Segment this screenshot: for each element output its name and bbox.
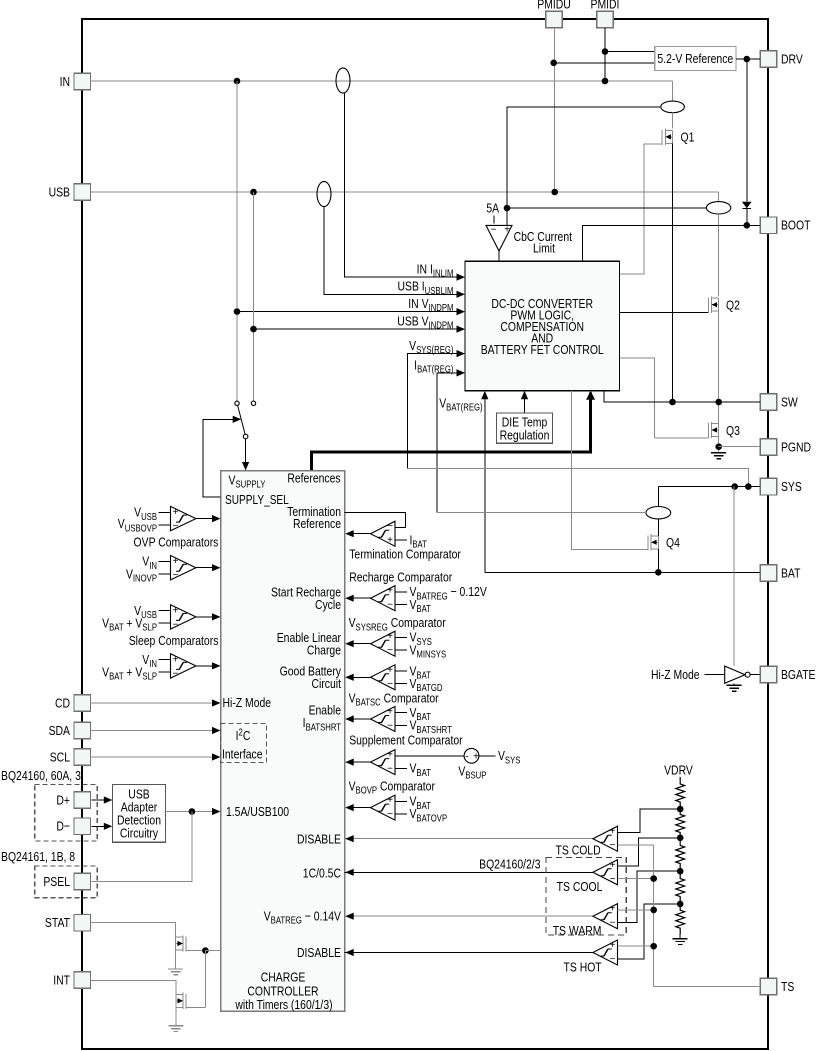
node SW-Q2Q3 junction [715, 399, 722, 406]
wire IN rail to E3 [672, 81, 674, 101]
wire USB VINDPM row [254, 328, 457, 330]
wire inverter input [704, 674, 724, 676]
wire IN rail [90, 80, 673, 82]
resistor R4 [676, 871, 685, 904]
dashed I2C interface box [221, 724, 267, 763]
wire SYS sense [408, 469, 749, 487]
svg-text:BATTERY FET CONTROL: BATTERY FET CONTROL [481, 342, 604, 358]
wire tap3 to TS WARM - [618, 871, 681, 922]
inverter U2 [725, 666, 745, 683]
block USB Adapter Detection [113, 784, 166, 842]
svg-text:DISABLE: DISABLE [297, 945, 341, 961]
wire DIE temp to DC-DC [524, 392, 526, 413]
transistor Q3 [707, 423, 709, 438]
svg-text:Termination Comparator: Termination Comparator [349, 546, 461, 562]
node SYS sense junction [745, 483, 752, 490]
ground under M2 [168, 1025, 183, 1027]
svg-text:+: + [610, 904, 616, 915]
wire M2 gate [186, 1007, 205, 1009]
current sense E2 on USB rail [317, 181, 331, 206]
svg-text:USB IUSBLIM: USB IUSBLIM [397, 278, 453, 296]
svg-text:−: − [610, 840, 616, 851]
arrow into DC-DC IN IINLIM [457, 274, 466, 281]
wire gate junction down [204, 951, 206, 1008]
wire comparator U4 output [196, 665, 213, 667]
node SW-Q1 junction [669, 399, 676, 406]
svg-text:+: + [610, 860, 616, 871]
svg-text:BAT: BAT [781, 565, 800, 581]
comparator supplement comparator [371, 750, 396, 775]
node DRV junction [744, 56, 751, 63]
wire references bus [312, 393, 591, 471]
svg-text:VBOVP Comparator: VBOVP Comparator [349, 778, 435, 796]
wire tap1 to TS COLD + [618, 809, 681, 832]
pin INT [74, 972, 91, 989]
svg-text:D+: D+ [56, 792, 70, 808]
comparator CbC current limit [486, 225, 512, 251]
wire TS COOL - stub [618, 878, 654, 880]
svg-text:Hi-Z Mode: Hi-Z Mode [651, 667, 700, 683]
wire TS WARM + stub [618, 909, 654, 911]
svg-text:Recharge Comparator: Recharge Comparator [349, 569, 452, 585]
svg-text:SYS: SYS [781, 479, 802, 495]
wire SYS to inverter [733, 487, 735, 666]
svg-text:+: + [173, 605, 179, 616]
svg-text:+: + [387, 665, 393, 676]
wire DRV down to diode [746, 59, 748, 202]
source VBSUP [464, 748, 479, 763]
wire BOOT rail [583, 225, 761, 261]
dashed box PSEL [35, 866, 97, 898]
comparator TS WARM [593, 904, 618, 929]
svg-text:−: − [387, 645, 393, 656]
svg-text:VBAT: VBAT [409, 760, 431, 778]
wire VBATSC comparator input stub [395, 712, 407, 714]
wire DISABLE2 row [345, 952, 593, 954]
wire Q1 source down to SW [672, 143, 674, 402]
comparator good battery comparator [371, 665, 396, 690]
wire supplement comparator output [353, 761, 370, 763]
svg-text:−: − [173, 570, 179, 581]
comparator TS HOT [593, 940, 618, 965]
svg-text:+: + [173, 556, 179, 567]
wire supplement to VBSUP source [395, 755, 464, 757]
comparator U2 left [171, 556, 196, 580]
pin PMIDI [597, 11, 614, 28]
svg-text:+: + [173, 654, 179, 665]
svg-text:Circuitry: Circuitry [120, 825, 158, 841]
wire VSYSREG row [408, 354, 457, 469]
node USB-switch junction [250, 189, 257, 196]
svg-text:+: + [387, 535, 393, 546]
pin PGND [760, 439, 777, 456]
wire comparator U2 inputs [159, 560, 171, 562]
pin BGATE [760, 666, 777, 683]
node SYS-inverter tap [731, 483, 738, 490]
svg-text:SDA: SDA [49, 723, 70, 739]
comparator VBOVP comparator [371, 795, 396, 820]
pin PSEL [74, 873, 91, 890]
pin CD [74, 695, 91, 712]
comparator U4 left [171, 654, 196, 678]
ground under Q3 [711, 452, 726, 454]
pin BAT [760, 565, 777, 582]
svg-text:1C/0.5C: 1C/0.5C [303, 865, 342, 881]
wire PMIDI down to IN rail [604, 28, 606, 81]
transistor M2 INT [185, 994, 187, 1009]
svg-text:Q4: Q4 [666, 535, 680, 551]
wire VSYSREG comparator input stub [395, 636, 407, 638]
wire good battery comparator output [353, 676, 370, 678]
node USB-PMIDU junction [551, 189, 558, 196]
comparator termination comparator [371, 521, 396, 546]
pin SW [760, 394, 777, 411]
comparator recharge comparator [371, 586, 396, 611]
svg-text:IN: IN [60, 74, 70, 90]
svg-text:+: + [387, 707, 393, 718]
svg-text:VBSUP: VBSUP [458, 763, 486, 781]
svg-text:D−: D− [56, 818, 70, 834]
svg-text:−: − [387, 809, 393, 820]
wire VBATSC comparator input stub [395, 724, 407, 726]
svg-text:DRV: DRV [781, 51, 803, 67]
wire detector output [165, 811, 213, 813]
wire tap2 to TS COOL + [618, 838, 681, 866]
svg-text:BQ24161, 1B, 8: BQ24161, 1B, 8 [1, 849, 75, 865]
ground under M1 [168, 968, 183, 970]
wire M1 gate [186, 950, 205, 952]
pin SYS [760, 478, 777, 495]
svg-text:−: − [387, 721, 393, 732]
wire Q2 source to SW [718, 311, 720, 402]
svg-text:−: − [173, 668, 179, 679]
svg-text:−: − [610, 954, 616, 965]
wire supplement comparator input stub [395, 767, 407, 769]
wire DISABLE row [345, 838, 593, 840]
current sense E5 [646, 507, 671, 519]
svg-text:PSEL: PSEL [43, 874, 70, 890]
comparator U1 left [171, 506, 196, 530]
svg-text:SW: SW [781, 394, 798, 410]
wire VBSUP to VSYS [479, 755, 496, 757]
svg-text:DISABLE: DISABLE [297, 831, 341, 847]
svg-text:References: References [287, 470, 340, 486]
dashed box D+/D- [35, 784, 97, 841]
node PMIDI-5.2V tap [602, 48, 609, 55]
block SUPPLY_SEL / CHARGE CONTROLLER [221, 471, 345, 1012]
svg-text:−: − [387, 521, 393, 532]
svg-text:+: + [387, 795, 393, 806]
svg-text:−: − [387, 679, 393, 690]
svg-text:+: + [173, 507, 179, 518]
node TS net COOL [650, 875, 657, 882]
node detector-PSEL junction [189, 808, 196, 815]
svg-text:PGND: PGND [781, 439, 811, 455]
wire E4 to Q2 drain [718, 214, 720, 297]
wire D- to detector [91, 825, 104, 827]
svg-text:VBATSC Comparator: VBATSC Comparator [349, 690, 439, 708]
arrow into DC-DC USB VINDPM [457, 326, 466, 333]
wire comparator U3 inputs [159, 610, 171, 612]
pin IN [74, 73, 91, 90]
pin SCL [74, 749, 91, 766]
dashed box BQ24160/2/3 [546, 858, 626, 935]
node 5A junction [504, 205, 511, 212]
wire 5A row to E4 [507, 207, 707, 209]
wire E5 sense tap IBAT [437, 512, 646, 514]
wire E5 to Q4 drain [657, 519, 659, 536]
svg-text:+: + [473, 751, 479, 762]
resistor R5 [676, 904, 685, 935]
node gate junction [202, 947, 209, 954]
wire VBATSC comparator output [353, 718, 370, 720]
wire VSYSREG comparator output [353, 643, 370, 645]
svg-text:TS HOT: TS HOT [563, 959, 601, 975]
ground under inverter [733, 683, 735, 685]
svg-text:USB VINDPM: USB VINDPM [397, 313, 453, 331]
svg-text:Supplement Comparator: Supplement Comparator [349, 732, 462, 748]
wire switch control [203, 419, 233, 497]
wire E2 tap down to USB ILIM row [324, 207, 457, 295]
pin BOOT [760, 217, 777, 234]
wire VBOVP comparator input stub [395, 813, 407, 815]
node IN VINDPM tap [234, 308, 241, 315]
wire IN rail down to switch [236, 81, 238, 401]
wire SYS down to E5 [657, 487, 659, 507]
svg-text:VDRV: VDRV [664, 762, 693, 778]
svg-text:Q1: Q1 [680, 129, 694, 145]
svg-text:PMIDU: PMIDU [537, 0, 571, 12]
wire recharge comparator input stub [395, 591, 407, 593]
wire PGND [719, 446, 761, 448]
svg-text:Limit: Limit [533, 240, 556, 256]
comparator TS COOL [593, 860, 618, 885]
node Q3 source junction [715, 443, 722, 450]
wire 5.2V ref input lower [554, 62, 655, 64]
node PMIDU-5.2V tap [550, 60, 557, 67]
comparator VBATSC comparator [371, 707, 396, 732]
svg-text:Sleep Comparators: Sleep Comparators [129, 633, 219, 649]
svg-text:SCL: SCL [50, 749, 71, 765]
resistor R1 [676, 777, 685, 809]
current sense E4 [706, 202, 730, 214]
wire Q4 gate [571, 391, 648, 550]
wire SDA to I2C [90, 730, 213, 732]
wire TS HOT + stub [618, 945, 654, 947]
svg-text:Interface: Interface [222, 746, 263, 762]
resistor R3 [676, 838, 685, 871]
svg-text:+: + [504, 224, 510, 235]
arrow DISABLE2 [345, 949, 354, 956]
transistor Q2 [707, 298, 709, 313]
node IN-switch junction [234, 78, 241, 85]
svg-text:VUSB: VUSB [134, 504, 157, 522]
wire CD to Hi-Z [90, 702, 213, 704]
wire Q2 gate [619, 312, 708, 314]
svg-text:PMIDI: PMIDI [591, 0, 620, 12]
svg-text:−: − [610, 874, 616, 885]
block DIE Temp Regulation [496, 413, 552, 443]
svg-text:Reference: Reference [293, 516, 341, 532]
svg-text:TS: TS [781, 979, 794, 995]
wire 1C/0.5C row [345, 871, 593, 873]
wire comparator U1 inputs [159, 511, 171, 513]
wire USB rail [90, 191, 719, 193]
svg-text:−: − [173, 619, 179, 630]
svg-text:+: + [387, 586, 393, 597]
wire tap4 to TS HOT - [618, 904, 681, 959]
block DC-DC converter [465, 261, 619, 391]
svg-text:-: - [465, 751, 468, 762]
transistor Q1 [661, 130, 663, 145]
wire Q3 drain to SW rail [718, 402, 720, 424]
wire comparator U1 output [196, 518, 213, 520]
svg-text:BQ24160/2/3: BQ24160/2/3 [479, 856, 541, 872]
wire Q3 gate riser [619, 358, 654, 438]
wire gate junction to block [205, 950, 220, 952]
wire TS pin [654, 986, 761, 988]
wire recharge comparator input stub [395, 604, 407, 606]
wire comparator U2 output [196, 567, 213, 569]
svg-text:INT: INT [53, 972, 70, 988]
svg-text:−: − [387, 600, 393, 611]
svg-text:OVP Comparators: OVP Comparators [134, 534, 219, 550]
wire PMIDU to USB rail [554, 28, 556, 192]
transistor M1 STAT [185, 937, 187, 952]
wire good battery comparator input stub [395, 683, 407, 685]
wire E3 sense tap [507, 107, 661, 225]
wire SYS rail [658, 486, 760, 488]
pin PMIDU [546, 11, 563, 28]
svg-text:Q3: Q3 [726, 423, 740, 439]
comparator U3 left [171, 605, 196, 629]
wire comparator U4 inputs [159, 659, 171, 661]
svg-text:VSYS: VSYS [498, 748, 521, 766]
wire VBATREG-0.14V row [352, 915, 593, 917]
svg-text:IN VINDPM: IN VINDPM [408, 296, 453, 314]
svg-text:Circuit: Circuit [311, 676, 341, 692]
pin STAT [74, 914, 91, 931]
svg-text:−: − [610, 918, 616, 929]
node BAT-Q4 junction [655, 569, 662, 576]
wire E1 tap down to IN ILIM row [345, 93, 457, 277]
wire BAT rail [485, 571, 760, 573]
wire comparator U3 output [196, 616, 213, 618]
node TS net HOT [650, 943, 657, 950]
svg-text:USB: USB [49, 184, 70, 200]
svg-text:BQ24160, 60A, 3: BQ24160, 60A, 3 [1, 768, 81, 784]
svg-text:SUPPLY_SEL: SUPPLY_SEL [225, 494, 289, 507]
arrow into DC-DC IBAT(REG) [457, 369, 466, 376]
node divider tap3 [677, 868, 684, 875]
svg-text:Hi-Z Mode: Hi-Z Mode [223, 695, 272, 711]
node IN-PMIDI junction [602, 78, 609, 85]
wire good battery comparator input stub [395, 670, 407, 672]
svg-text:+: + [610, 940, 616, 951]
svg-text:−: − [491, 224, 497, 235]
wire SCL to I2C [90, 756, 213, 758]
svg-text:IBAT(REG): IBAT(REG) [414, 357, 453, 375]
svg-text:STAT: STAT [45, 915, 70, 931]
svg-text:VSYS(REG): VSYS(REG) [409, 338, 453, 356]
svg-text:Enable: Enable [309, 702, 342, 718]
arrow into DC-DC USB IUSBLIM [457, 291, 466, 298]
svg-text:BOOT: BOOT [781, 217, 811, 233]
node divider tap2 [677, 835, 684, 842]
svg-text:IN IINLIM: IN IINLIM [417, 261, 454, 279]
svg-text:5.2-V Reference: 5.2-V Reference [657, 51, 733, 67]
wire STAT [90, 923, 176, 938]
svg-text:VIN: VIN [142, 652, 157, 670]
wire M2 source to ground [175, 1007, 177, 1025]
svg-text:TS COLD: TS COLD [555, 842, 600, 858]
wire PSEL [91, 812, 192, 882]
svg-text:Cycle: Cycle [315, 597, 341, 613]
wire Q3 source to PGND [718, 437, 720, 453]
wire VSYSREG comparator input stub [395, 649, 407, 651]
svg-text:1.5A/USB100: 1.5A/USB100 [226, 804, 289, 820]
svg-text:+: + [387, 750, 393, 761]
svg-text:−: − [173, 521, 179, 532]
arrow into DC-DC IN VINDPM [457, 308, 466, 315]
node BOOT-diode junction [744, 222, 751, 229]
wire 5.2V ref to DRV [736, 58, 760, 60]
svg-text:Regulation: Regulation [500, 427, 550, 443]
wire E3 to Q1 drain [672, 113, 674, 129]
pin USB [74, 184, 91, 201]
wire Q4 source to BAT [657, 549, 659, 573]
5.2-V Reference box [655, 47, 736, 71]
node divider tap1 [677, 806, 684, 813]
node divider tap4 [677, 901, 684, 908]
wire 5.2V ref input upper [605, 51, 655, 53]
wire termination comparator output [353, 533, 370, 535]
svg-text:5A: 5A [486, 200, 499, 216]
wire Q1 gate [619, 144, 662, 274]
svg-text:I2C: I2C [236, 727, 251, 744]
wire USB rail down to E4 [718, 192, 720, 202]
ground under divider [679, 935, 681, 939]
wire diode to BOOT rail [746, 209, 748, 226]
arrow into DC-DC VSYS(REG) [457, 350, 466, 357]
wire INT [90, 980, 176, 994]
transistor Q4 [647, 536, 649, 551]
svg-text:+: + [387, 631, 393, 642]
pin D+ [74, 792, 91, 809]
wire recharge comparator output [353, 597, 370, 599]
svg-text:CD: CD [55, 695, 70, 711]
wire D+ to detector [91, 799, 104, 801]
wire M1 source to ground [175, 950, 177, 969]
current sense E1 on IN rail [336, 68, 350, 93]
wire termination comparator input stub [395, 539, 407, 541]
svg-text:BGATE: BGATE [781, 667, 816, 683]
svg-text:−: − [387, 764, 393, 775]
svg-text:TS WARM: TS WARM [553, 923, 602, 939]
svg-text:with Timers (160/1/3): with Timers (160/1/3) [235, 997, 333, 1013]
wire Q3 gate [654, 437, 708, 439]
wire VBOVP comparator input stub [395, 800, 407, 802]
wire switch common to VSUPPLY [245, 439, 247, 463]
wire termination reference [345, 512, 406, 527]
current sense E3 [661, 101, 685, 113]
svg-text:TS COOL: TS COOL [557, 879, 603, 895]
node USB VINDPM tap [250, 326, 257, 333]
node TS net WARM [650, 907, 657, 914]
arrow VBATREG-0.14V [345, 913, 354, 920]
diode D1 to BOOT [742, 202, 752, 209]
svg-text:VIN: VIN [142, 553, 157, 571]
